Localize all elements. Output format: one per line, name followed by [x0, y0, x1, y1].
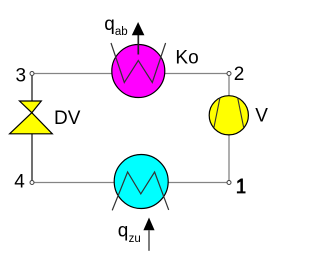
- compressor chord right: [238, 98, 244, 128]
- evaporator zigzag: [112, 172, 169, 210]
- arrow q_zu stem: [148, 230, 150, 251]
- wire top: node 3 to node 2: [32, 73, 229, 75]
- wire right: node 2 to node 1: [228, 74, 230, 183]
- expansion valve DV top triangle: [20, 101, 42, 113]
- wire left: node 3 to node 4 through valve: [31, 74, 33, 183]
- svg-text:DV: DV: [54, 108, 81, 129]
- node 2: [227, 72, 231, 76]
- svg-text:q: q: [104, 14, 115, 35]
- svg-text:zu: zu: [129, 233, 141, 245]
- svg-text:V: V: [255, 106, 268, 127]
- label node 1: [237, 179, 246, 194]
- condenser Ko circle: [112, 45, 165, 98]
- evaporator circle: [114, 155, 168, 209]
- expansion valve DV bottom triangle: [10, 113, 53, 134]
- svg-text:4: 4: [14, 171, 25, 192]
- condenser zigzag: [111, 43, 166, 83]
- node 4: [30, 181, 34, 185]
- svg-text:3: 3: [16, 66, 27, 87]
- node 3: [30, 72, 34, 76]
- svg-text:ab: ab: [115, 26, 128, 38]
- wire bottom: node 4 to node 1: [32, 182, 229, 184]
- label q_ab: [104, 14, 127, 38]
- arrow q_ab stem: [137, 30, 139, 55]
- compressor V circle: [209, 96, 248, 135]
- label q_zu: [118, 221, 141, 246]
- svg-text:Ko: Ko: [175, 47, 198, 68]
- arrow q_ab head: [132, 22, 145, 35]
- arrow q_zu head: [143, 218, 154, 231]
- node 1: [227, 181, 231, 185]
- svg-text:2: 2: [234, 64, 245, 85]
- svg-text:q: q: [118, 221, 129, 242]
- compressor chord left: [214, 98, 220, 128]
